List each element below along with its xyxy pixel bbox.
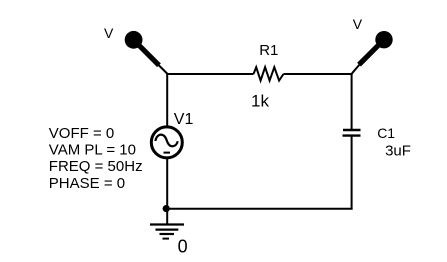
- wire left vertical (V1 bottom to ground): [166, 158, 168, 225]
- svg-text:FREQ = 50Hz: FREQ = 50Hz: [49, 158, 143, 175]
- ground symbol: [150, 225, 184, 239]
- svg-text:V: V: [104, 25, 114, 41]
- voltage probe marker left: circle: [125, 31, 143, 49]
- wire right vertical (C1 bottom to bottom wire): [351, 136, 353, 210]
- junction dot: [163, 205, 170, 212]
- wire top horizontal left of R1: [166, 73, 253, 75]
- wire right vertical (node to C1 top): [351, 73, 353, 130]
- wire bottom horizontal: [166, 208, 352, 210]
- voltage source V1 circle: [151, 127, 182, 158]
- capacitor C1 plates: [343, 130, 361, 136]
- V1 sine wave: [155, 135, 177, 147]
- wire top horizontal right of R1: [284, 73, 353, 75]
- svg-text:V1: V1: [174, 111, 194, 128]
- svg-text:1k: 1k: [251, 92, 269, 111]
- svg-text:V: V: [353, 16, 363, 32]
- voltage probe marker right: needle: [352, 43, 381, 74]
- svg-text:PHASE = 0: PHASE = 0: [49, 175, 125, 192]
- svg-text:VAMPL = 10: VAMPL = 10: [49, 142, 136, 159]
- svg-text:VOFF = 0: VOFF = 0: [49, 125, 114, 142]
- voltage probe marker left: needle: [137, 43, 168, 74]
- resistor R1: [254, 67, 284, 80]
- wire left vertical (node to V1 top): [166, 73, 168, 127]
- svg-text:3uF: 3uF: [385, 143, 411, 160]
- voltage probe marker right: circle: [375, 31, 392, 48]
- V1 minus mark: [164, 152, 171, 154]
- svg-text:R1: R1: [259, 42, 278, 59]
- svg-text:0: 0: [178, 237, 188, 257]
- svg-text:C1: C1: [377, 125, 395, 141]
